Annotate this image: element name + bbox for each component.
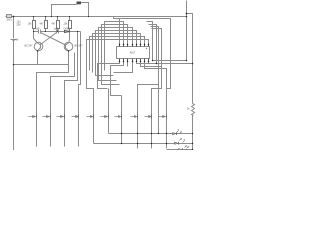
- svg-text:4017: 4017: [130, 52, 136, 55]
- svg-text:25V: 25V: [17, 24, 22, 27]
- svg-text:OA91: OA91: [64, 28, 71, 31]
- svg-text:4k7: 4k7: [52, 23, 57, 26]
- svg-text:BC 547: BC 547: [25, 45, 34, 48]
- svg-text:SW1: SW1: [7, 19, 13, 22]
- svg-text:1uF: 1uF: [54, 28, 59, 31]
- svg-text:9V: 9V: [16, 39, 19, 42]
- svg-text:BC 547: BC 547: [75, 45, 84, 48]
- svg-text:4k7: 4k7: [40, 23, 45, 26]
- svg-text:1uF: 1uF: [36, 28, 41, 31]
